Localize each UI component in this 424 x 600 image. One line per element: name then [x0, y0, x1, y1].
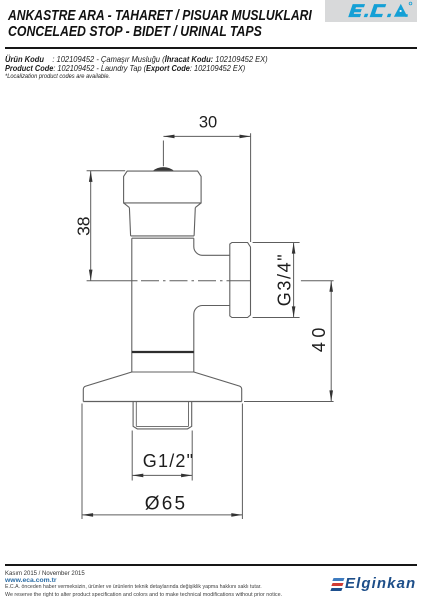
arrow G1/2 right [181, 474, 192, 478]
title block [8, 9, 373, 40]
footer site [5, 577, 57, 584]
arrow G1/2 left [132, 474, 143, 478]
svg-text:Ø65: Ø65 [145, 494, 188, 515]
handle cap [124, 171, 202, 203]
dim Ø65 extension lines [82, 404, 242, 520]
body left edge [131, 238, 133, 372]
svg-text:G1/2": G1/2" [143, 451, 194, 471]
svg-text:38: 38 [73, 216, 93, 235]
ECA logo box [325, 0, 417, 22]
product code block [5, 55, 297, 82]
dim 30 line [163, 135, 250, 137]
dim 38 extension lines [87, 170, 126, 172]
dim G3/4 extension lines [253, 243, 300, 318]
G3/4 outlet flange [230, 243, 251, 318]
arrow 38 top [89, 171, 93, 182]
footer dates [5, 570, 85, 577]
dim G3/4 line [293, 243, 295, 318]
Elginkan logo text [345, 575, 416, 592]
dimension labels [73, 114, 329, 515]
cap-to-bonnet chamfers [124, 203, 202, 208]
footer rule [5, 564, 417, 566]
body right edge with outlet neck [194, 238, 230, 255]
dim G1/2 extension lines [132, 431, 192, 481]
arrow 30 left [163, 135, 174, 139]
arrow 40 top [329, 281, 333, 292]
dim 38 line [90, 171, 92, 281]
svg-text:30: 30 [199, 114, 217, 132]
dim Ø65 line [82, 514, 242, 516]
centerline of outlet [87, 280, 138, 282]
arrow 30 right [240, 135, 251, 139]
wall flange cone [83, 372, 241, 402]
footer disclaimer TR [5, 584, 262, 590]
G1/2 threaded stub [133, 402, 192, 429]
svg-text:G3/4": G3/4" [274, 253, 294, 306]
dimension graphics [82, 133, 334, 519]
svg-text:40: 40 [309, 323, 329, 352]
arrowheads [82, 135, 333, 517]
Elginkan logo icon [331, 578, 345, 592]
header rule [5, 47, 417, 49]
arrow 38 bottom [89, 270, 93, 281]
ECA logo [325, 0, 417, 22]
arrow Ø65 right [231, 513, 242, 517]
body seam ring [132, 351, 194, 353]
arrow G3/4 bottom [292, 306, 296, 317]
dim 40 extension lines [244, 281, 334, 402]
arrow Ø65 left [82, 513, 93, 517]
dim G1/2 line [132, 474, 192, 476]
stub thread inner lines [136, 402, 188, 427]
valve top screw knob [152, 167, 174, 171]
dim 40 line [330, 281, 332, 402]
arrow G3/4 top [292, 243, 296, 254]
arrow 40 bottom [329, 390, 333, 401]
footer disclaimer EN [5, 592, 282, 598]
dim 30 extension lines [163, 133, 250, 242]
bonnet base ring [132, 237, 194, 239]
bonnet [129, 208, 195, 236]
wall flange base line [83, 401, 241, 403]
outlet neck bottom [194, 306, 230, 373]
